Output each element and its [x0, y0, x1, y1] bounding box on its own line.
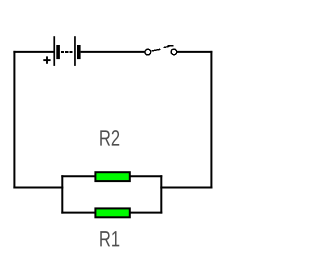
battery B1 short thick plate (right cell) — [77, 45, 81, 59]
label R2 — [100, 130, 119, 145]
label R1 — [100, 231, 119, 246]
wire right vertical — [210, 51, 212, 189]
resistor R1 body — [95, 208, 129, 217]
wire top-left segment — [13, 51, 53, 53]
battery B1 long plate (right cell) — [74, 36, 76, 66]
switch S1 blade — [151, 46, 173, 51]
wire bottom-right segment — [160, 187, 212, 189]
parallel bottom branch wire — [61, 212, 162, 214]
resistor R2 body — [95, 172, 129, 181]
parallel block left junction bar — [61, 175, 63, 213]
switch S1 right contact — [171, 49, 177, 55]
battery B1 dashed link — [61, 51, 73, 53]
battery plus label — [43, 56, 50, 63]
switch S1 left contact — [145, 49, 151, 55]
wire switch-to-corner segment — [177, 51, 213, 53]
wire left vertical — [13, 51, 15, 189]
wire battery-to-switch segment — [81, 51, 146, 53]
parallel top branch wire — [61, 175, 162, 177]
wire bottom-left segment — [13, 187, 63, 189]
battery B1 long plate (left cell) — [53, 36, 55, 66]
parallel block right junction bar — [160, 175, 162, 213]
battery B1 short thick plate (left cell) — [56, 45, 60, 59]
